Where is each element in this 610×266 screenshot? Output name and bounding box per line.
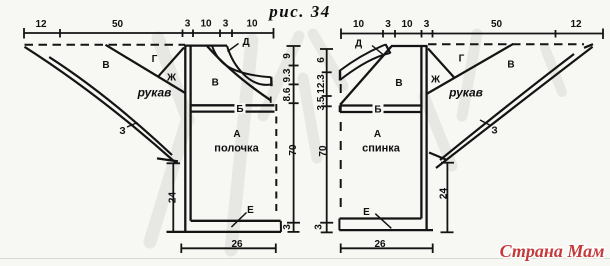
24 dim vertical right xyxy=(446,163,448,233)
front band inner vertical xyxy=(189,45,191,221)
24 dim bottom T right xyxy=(441,231,454,233)
26 dim line right xyxy=(341,247,433,249)
scale line xyxy=(326,49,328,232)
svg-text:70: 70 xyxy=(288,144,299,156)
svg-text:А: А xyxy=(233,129,240,140)
svg-text:Д: Д xyxy=(242,37,249,48)
svg-text:9.3: 9.3 xyxy=(282,68,293,82)
scale bottom bar xyxy=(288,231,300,233)
bottom outer line xyxy=(167,231,282,233)
svg-text:рукав: рукав xyxy=(448,86,483,100)
svg-text:6: 6 xyxy=(316,57,327,63)
svg-text:10: 10 xyxy=(246,19,258,30)
svg-text:3: 3 xyxy=(223,19,229,30)
svg-text:В: В xyxy=(507,60,514,71)
svg-text:Ж: Ж xyxy=(166,73,177,84)
raglan end tick left xyxy=(270,97,272,103)
dim end tick right xyxy=(273,28,275,39)
Б band left cap right xyxy=(339,106,341,113)
scale top bar xyxy=(287,45,301,47)
svg-text:В: В xyxy=(212,78,219,89)
svg-text:26: 26 xyxy=(374,239,386,250)
24 dim right xyxy=(441,163,455,233)
dim tick 232 xyxy=(231,30,233,38)
watermark strokes xyxy=(150,34,562,250)
Б band top line right xyxy=(340,104,422,106)
sleeve cuff cap right xyxy=(429,153,447,161)
svg-text:3: 3 xyxy=(185,19,191,30)
sleeve top seam right xyxy=(427,44,514,94)
26 dim right xyxy=(341,244,433,254)
svg-text:Б: Б xyxy=(374,105,381,116)
svg-text:24: 24 xyxy=(168,192,179,204)
svg-text:3.5: 3.5 xyxy=(316,96,327,110)
neck strip inner curve xyxy=(227,46,271,85)
bottom right cap xyxy=(280,221,282,232)
scale tick 96 xyxy=(322,95,332,97)
26 dim left cap xyxy=(180,244,182,254)
svg-text:9: 9 xyxy=(282,53,293,59)
svg-text:В: В xyxy=(102,60,109,71)
raglan seam right xyxy=(341,46,392,104)
band inner vertical right xyxy=(420,46,422,219)
Б band top line xyxy=(191,104,275,106)
svg-text:Ж: Ж xyxy=(430,75,441,86)
svg-text:З: З xyxy=(119,126,125,137)
scale top bar xyxy=(320,48,333,50)
svg-text:24: 24 xyxy=(439,188,450,200)
svg-text:З: З xyxy=(491,126,497,137)
svg-text:10: 10 xyxy=(200,19,212,30)
svg-text:Б: Б xyxy=(236,104,243,115)
svg-text:Е: Е xyxy=(363,207,370,218)
svg-text:спинка: спинка xyxy=(362,143,401,155)
scale bottom bar xyxy=(321,231,333,233)
svg-text:Д: Д xyxy=(355,39,362,50)
dashed shoulder line left xyxy=(25,44,186,46)
dim end tick right xyxy=(602,29,604,40)
svg-text:Страна Мам: Страна Мам xyxy=(500,241,605,261)
front band outer vertical xyxy=(184,45,186,232)
26 dim right cap right xyxy=(432,244,434,254)
svg-text:Г: Г xyxy=(459,54,465,65)
scale tick 103 xyxy=(289,102,299,104)
raglan seam xyxy=(207,46,271,101)
Б band bottom line xyxy=(191,110,275,112)
bottom outer line right xyxy=(339,229,433,231)
scale tick 222 xyxy=(320,222,333,224)
faint bottom border xyxy=(0,258,610,260)
fold dashed line xyxy=(275,104,277,216)
fold dashed line right xyxy=(340,84,342,216)
dim tick 220 xyxy=(219,30,221,38)
leader to Е left xyxy=(231,213,246,228)
svg-text:рукав: рукав xyxy=(137,86,172,100)
svg-text:70: 70 xyxy=(318,145,329,157)
leader to Д left xyxy=(228,44,239,52)
leader to Е right xyxy=(375,214,391,229)
neck strip top cap right xyxy=(386,44,391,53)
dim tick 395 xyxy=(394,30,396,38)
24 dim left xyxy=(167,163,181,232)
24 dim bottom T xyxy=(167,231,181,233)
26 dim left cap right xyxy=(340,244,342,254)
dashed shoulder line right xyxy=(428,43,584,45)
scale tick 72 xyxy=(322,71,332,73)
svg-text:полочка: полочка xyxy=(214,143,259,155)
sleeve band upper line xyxy=(49,57,172,155)
leader line to З xyxy=(127,123,138,128)
svg-text:12: 12 xyxy=(570,19,582,30)
svg-text:12.3: 12.3 xyxy=(316,74,327,94)
dim end tick left xyxy=(340,29,342,40)
dim tick 193 xyxy=(192,30,194,38)
svg-text:10: 10 xyxy=(353,19,365,30)
label Б right xyxy=(373,104,384,116)
bottom inner line xyxy=(191,220,281,222)
scale line xyxy=(293,46,295,232)
svg-text:3: 3 xyxy=(314,224,325,230)
leader line to З right xyxy=(480,120,491,126)
neck strip inner curve right xyxy=(340,53,390,80)
dim tick 432 xyxy=(432,30,434,38)
svg-text:10: 10 xyxy=(401,19,413,30)
sleeve branch to band corner xyxy=(159,48,185,77)
dim tick 60 xyxy=(59,29,61,38)
svg-text:3: 3 xyxy=(282,224,293,230)
label Б left xyxy=(235,103,246,115)
dim line left xyxy=(24,32,274,34)
sleeve band lower line xyxy=(25,47,177,163)
26 dim right cap xyxy=(275,244,277,254)
band outer vertical right xyxy=(425,46,427,230)
top edge xyxy=(185,44,228,46)
26 dim line xyxy=(181,247,275,249)
dim tick 555 xyxy=(555,30,557,38)
scale tick 84 xyxy=(289,83,299,85)
leader to Д right xyxy=(372,46,383,55)
sleeve cuff cap xyxy=(157,158,178,161)
24 dim vertical xyxy=(172,163,174,232)
scale tick 65 xyxy=(289,65,299,67)
top edge right xyxy=(391,45,428,47)
neck strip outer curve xyxy=(212,46,271,78)
dim line right xyxy=(341,33,603,35)
scale tick 106 xyxy=(322,105,332,107)
sleeve top seam xyxy=(106,45,187,94)
neck strip left cap right xyxy=(339,70,341,81)
svg-text:50: 50 xyxy=(112,19,124,30)
svg-text:12: 12 xyxy=(35,19,47,30)
dim tick 182 xyxy=(182,30,184,38)
scale tick 222 xyxy=(287,222,300,224)
bottom left cap right xyxy=(338,219,340,231)
sleeve band lower line right xyxy=(436,47,593,168)
sleeve band upper line right xyxy=(440,54,574,160)
neck strip cap xyxy=(270,77,273,86)
svg-text:50: 50 xyxy=(491,19,503,30)
neck strip outer curve right xyxy=(340,45,386,71)
svg-text:26: 26 xyxy=(231,239,243,250)
svg-text:Г: Г xyxy=(152,54,158,65)
svg-text:А: А xyxy=(374,129,381,140)
svg-text:рис. 34: рис. 34 xyxy=(267,2,331,21)
svg-text:3: 3 xyxy=(385,19,391,30)
sleeve branch to band corner right xyxy=(428,49,455,79)
dim tick 421 xyxy=(421,30,423,38)
24 dim top T right xyxy=(441,162,454,164)
svg-text:8.6: 8.6 xyxy=(282,87,293,101)
sleeve tip line right xyxy=(584,44,593,48)
dim tick 383 xyxy=(382,30,384,38)
24 dim top T xyxy=(167,162,181,164)
svg-text:В: В xyxy=(395,78,402,89)
dim end tick left xyxy=(23,28,25,39)
bottom inner line right xyxy=(340,217,422,219)
Б band bottom line right xyxy=(340,111,422,113)
svg-text:Е: Е xyxy=(247,205,254,216)
26 dim left xyxy=(181,244,275,254)
svg-text:3: 3 xyxy=(424,19,430,30)
